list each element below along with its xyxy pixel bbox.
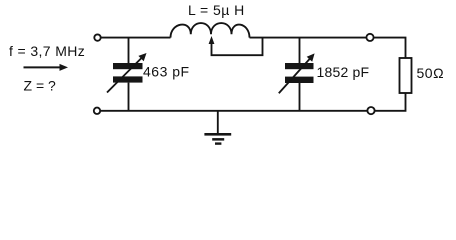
node OUT+ terminal inline top-right	[366, 34, 373, 41]
inductor L1	[171, 23, 250, 38]
ground bars	[204, 133, 231, 136]
node IN- terminal bottom-left	[94, 108, 100, 114]
wire inductor to right terminal	[250, 37, 367, 39]
inductor tap arrow head	[209, 36, 215, 44]
wire tap loop of inductor	[212, 38, 263, 55]
resistor R1 50 ohm body	[400, 58, 412, 93]
svg-text:463 pF: 463 pF	[143, 64, 190, 80]
capacitor C1 variable arrow	[107, 53, 147, 93]
wire capacitor C2 top lead	[299, 38, 301, 63]
wire capacitor C1 top lead	[128, 38, 130, 63]
wire bottom run	[100, 110, 367, 112]
wire top-left to inductor	[101, 37, 171, 39]
node IN+ terminal top-left	[94, 34, 100, 40]
svg-text:50Ω: 50Ω	[417, 65, 445, 81]
capacitor C2 variable arrow	[279, 53, 315, 93]
svg-text:f = 3,7 MHz: f = 3,7 MHz	[9, 43, 85, 59]
svg-text:L = 5µ H: L = 5µ H	[188, 2, 245, 18]
frequency arrow	[24, 64, 69, 71]
wire terminal to top-right corner and down to resistor	[374, 38, 406, 58]
wire resistor bottom to bottom-right corner	[375, 93, 406, 111]
capacitor C1 plates 463pF	[113, 63, 143, 69]
svg-text:1852 pF: 1852 pF	[317, 64, 370, 80]
wire capacitor C1 bottom lead	[128, 83, 130, 111]
svg-text:Z = ?: Z = ?	[24, 78, 57, 94]
ground	[217, 111, 219, 133]
capacitor C2 plates 1852pF	[285, 63, 314, 69]
node OUT- terminal inline bottom-right	[367, 107, 374, 114]
wire capacitor C2 bottom lead	[299, 83, 301, 111]
